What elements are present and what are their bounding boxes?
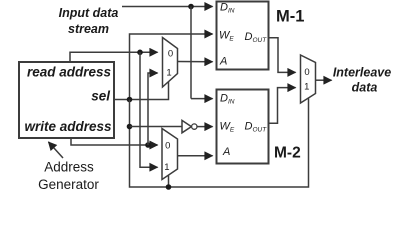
wire into M-2 DIN xyxy=(191,98,213,100)
wire sel to M-1 WE xyxy=(130,34,213,100)
svg-text:0: 0 xyxy=(165,141,170,152)
svg-text:Input data: Input data xyxy=(59,6,119,20)
wire write address to upper mux 1 xyxy=(148,73,158,145)
memory M-2 xyxy=(217,90,269,164)
svg-text:data: data xyxy=(352,80,378,94)
svg-text:Address: Address xyxy=(44,160,94,175)
svg-text:1: 1 xyxy=(304,82,309,93)
node input data junction xyxy=(188,4,194,10)
svg-text:A: A xyxy=(219,56,227,68)
wire input data stream to M-1 DIN xyxy=(122,6,213,8)
svg-text:stream: stream xyxy=(68,22,109,36)
inverter U1 xyxy=(182,120,191,132)
wire read address to upper mux 0 xyxy=(70,52,158,62)
svg-text:M-2: M-2 xyxy=(274,145,301,162)
wire write address to lower mux 0 xyxy=(71,138,158,145)
wire M-1 DOUT to output mux 0 xyxy=(269,38,296,73)
svg-text:read address: read address xyxy=(27,65,112,80)
svg-text:Interleave: Interleave xyxy=(333,66,391,80)
node bottom rail junction xyxy=(166,184,172,190)
mux output xyxy=(301,55,316,103)
svg-text:A: A xyxy=(222,146,230,158)
svg-text:Generator: Generator xyxy=(38,177,99,192)
wire M-2 DOUT to output mux 1 xyxy=(269,88,296,124)
node sel inverter junction xyxy=(127,124,133,130)
memory M-1 xyxy=(217,2,269,70)
svg-text:sel: sel xyxy=(91,89,110,104)
wire sel branch to inverter xyxy=(130,126,182,128)
node sel junction xyxy=(127,97,133,103)
svg-text:M-1: M-1 xyxy=(276,7,304,25)
wire inverter output to M-2 WE xyxy=(197,126,213,128)
wire upper mux output to M-1 A xyxy=(178,61,213,63)
wire interleave data output xyxy=(316,79,332,81)
svg-text:0: 0 xyxy=(168,49,173,60)
wire input data drop to M-2 DIN xyxy=(190,7,192,99)
svg-text:write address: write address xyxy=(24,119,112,134)
mux upper (write path select) xyxy=(163,38,178,88)
svg-text:0: 0 xyxy=(304,67,309,78)
wire sel down and bottom rail to output mux select xyxy=(130,99,309,188)
mux lower (read path select) xyxy=(162,129,178,180)
svg-text:1: 1 xyxy=(166,68,171,79)
wire read address to lower mux 1 xyxy=(140,52,158,167)
node write address junction xyxy=(145,142,151,148)
wire lower mux select drop xyxy=(168,175,170,187)
address generator box xyxy=(19,62,114,138)
wire lower mux output to M-2 A xyxy=(178,155,213,157)
annotation arrow to address generator xyxy=(49,142,64,158)
svg-text:1: 1 xyxy=(164,162,169,173)
node read address junction xyxy=(137,50,143,56)
wire sel from address generator xyxy=(114,82,169,100)
